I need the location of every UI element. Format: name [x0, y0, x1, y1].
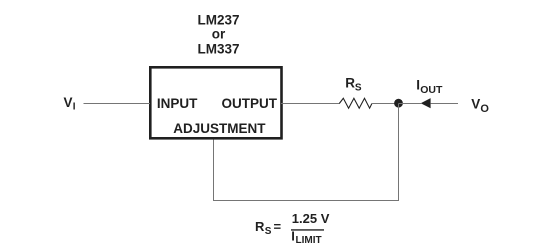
svg-text:V: V [64, 95, 73, 110]
regulator U1 LM237/LM337 body [150, 67, 281, 138]
svg-text:LM337: LM337 [197, 42, 239, 57]
wire resistor RS to node [372, 103, 399, 105]
svg-text:V: V [471, 96, 480, 111]
label IOUT (above arrow) [416, 78, 443, 96]
svg-text:ADJUSTMENT: ADJUSTMENT [173, 121, 266, 136]
wire ADJUSTMENT pin down [213, 140, 215, 202]
wire bottom horizontal [213, 200, 399, 202]
svg-text:S: S [265, 226, 272, 237]
wire node to arrow [399, 103, 422, 105]
wire node down to bottom wire [398, 104, 400, 201]
svg-text:OUTPUT: OUTPUT [222, 96, 278, 111]
svg-text:S: S [355, 82, 362, 93]
svg-text:or: or [212, 27, 226, 42]
label LM237 or LM337 (device type, above U1) [197, 12, 239, 56]
resistor RS zigzag [339, 98, 372, 108]
svg-text:1.25 V: 1.25 V [292, 211, 330, 226]
svg-text:I: I [73, 102, 76, 113]
svg-text:LM237: LM237 [197, 12, 239, 27]
node VO label [471, 96, 489, 115]
svg-text:R: R [345, 76, 355, 91]
formula RS = 1.25 V / I_LIMIT [255, 211, 330, 246]
svg-text:=: = [274, 219, 282, 234]
svg-text:INPUT: INPUT [157, 96, 198, 111]
label RS (above resistor) [345, 76, 362, 94]
svg-text:O: O [480, 103, 489, 115]
wire VI to INPUT pin [84, 103, 151, 105]
svg-text:OUT: OUT [420, 84, 443, 96]
svg-text:I: I [291, 228, 295, 243]
svg-text:LIMIT: LIMIT [296, 235, 322, 246]
current arrow IOUT (points left) [421, 98, 431, 108]
junction node (dot) [394, 99, 403, 108]
wire OUTPUT pin to resistor RS [281, 103, 340, 105]
node VI label [64, 95, 76, 113]
wire arrow to VO [431, 103, 458, 105]
svg-text:R: R [255, 219, 265, 234]
